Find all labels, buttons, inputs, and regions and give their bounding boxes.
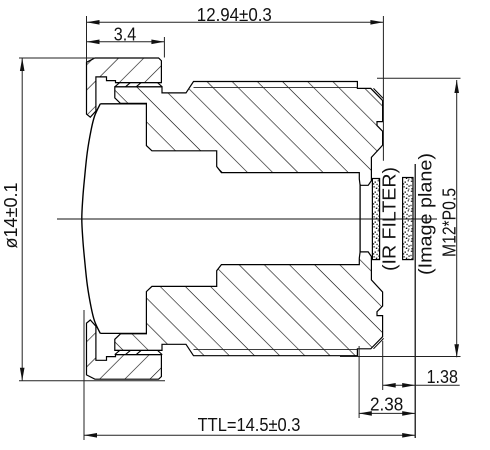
sensor cover glass [403,178,413,260]
thread root line lower [194,349,358,351]
dim 2.38 arrows [359,411,372,416]
cap thread engagement strip upper [115,83,162,87]
dim TTL line and extension [84,310,415,440]
dim dia14 arrows [20,58,25,71]
dim 12.94 arrows [87,20,100,25]
thread end chamfer double line upper [374,88,384,98]
svg-text:(Image plane): (Image plane) [415,153,436,275]
dim 1.38 line and extension [383,341,460,390]
front cap ring upper section [87,58,162,117]
svg-text:2.38: 2.38 [370,394,403,415]
image plane line [414,164,416,438]
dim 1.38 arrows [383,383,396,388]
thread end chamfer double line lower [374,338,384,348]
front cap ring lower section [87,320,162,379]
dim M12 line and extensions [340,78,461,357]
svg-text:(IR FILTER): (IR FILTER) [379,167,400,271]
optical axis centerline [57,218,437,220]
dim 2.38 line and extension [359,346,415,418]
svg-text:TTL=14.5±0.3: TTL=14.5±0.3 [198,414,301,435]
lens rim upper edge [100,103,146,105]
front lens element curve [82,104,101,334]
svg-text:3.4: 3.4 [114,23,136,44]
thread root line upper [194,87,358,89]
svg-text:1.38: 1.38 [427,366,458,387]
IR filter glass [372,179,379,260]
dim 3.4 line and extension [87,37,165,58]
barrel body upper section [115,82,383,186]
dim TTL arrows [84,433,97,438]
svg-text:12.94±0.3: 12.94±0.3 [197,4,272,25]
lens rim lower edge [100,332,146,334]
svg-text:M12*P0.5: M12*P0.5 [439,188,460,257]
rear aperture edge line [359,185,361,252]
dim 12.94 line and extensions [87,16,384,161]
dim 3.4 arrows [87,40,100,45]
cap thread engagement strip lower [115,350,162,354]
dim dia14 line and extensions [19,58,165,381]
dim M12 arrows [454,80,459,93]
barrel body lower section [115,252,383,356]
svg-text:ø14±0.1: ø14±0.1 [0,183,21,249]
